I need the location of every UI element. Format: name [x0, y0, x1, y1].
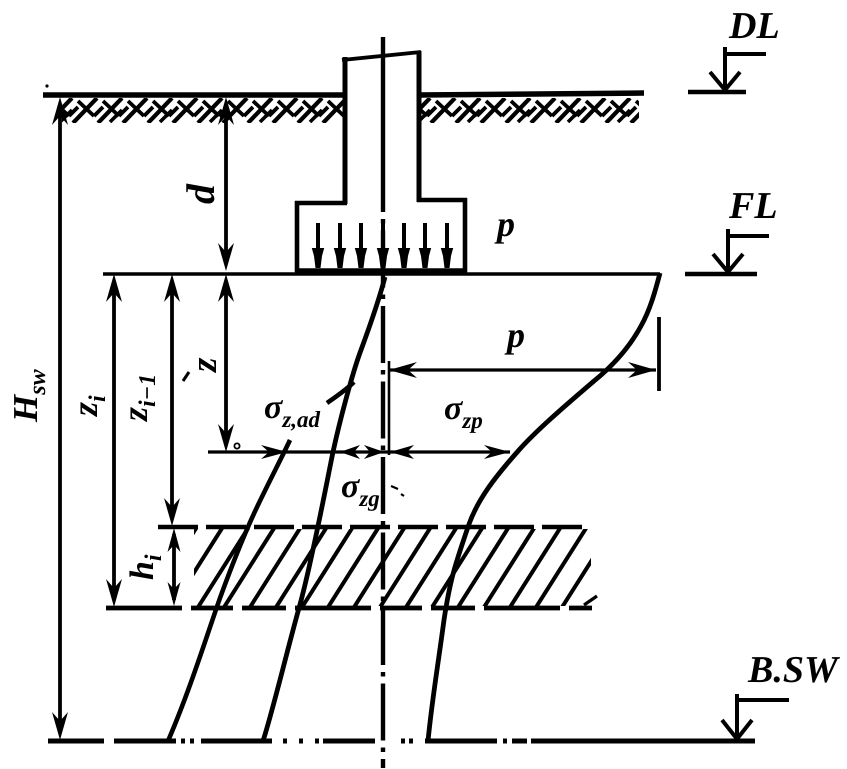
- centre axis dash-dot line: [381, 37, 385, 768]
- sigma_z,ad stress curve (left): [168, 440, 290, 741]
- foundation column: [342, 51, 421, 204]
- svg-text:p: p: [494, 204, 515, 244]
- soil layer hatching: [143, 522, 616, 612]
- sigma horizontal dimension line at depth z: [208, 445, 510, 459]
- svg-text:d: d: [178, 183, 223, 204]
- dimension z: [218, 274, 234, 452]
- svg-text:FL: FL: [728, 185, 778, 227]
- ground hatch band left of column: [48, 98, 378, 123]
- DL level marker: [688, 47, 766, 92]
- leader from sigma_z,ad label to curve: [327, 382, 354, 403]
- sigma_zp stress curve (right): [428, 273, 660, 741]
- small speck right of sigma_zg: [391, 486, 404, 496]
- FL level line (footing base plane): [103, 272, 660, 276]
- sigma_zg stress line (middle): [263, 277, 385, 741]
- compressible layer bottom dashed line: [106, 606, 592, 611]
- svg-text:p: p: [504, 315, 525, 355]
- dimension h_i: [168, 528, 181, 606]
- small tick at right end of layer bottom: [584, 596, 597, 605]
- base pressure arrows p under footing: [312, 223, 453, 268]
- svg-text:z: z: [184, 357, 225, 374]
- p dimension line at footing base pressure: [389, 317, 659, 455]
- tiny scan speck near z arrow: [234, 443, 239, 448]
- compressible layer top dashed line: [158, 525, 586, 529]
- dimension z_i-1: [164, 274, 180, 526]
- dimension H_sw: [52, 97, 68, 740]
- B.SW level marker: [722, 694, 789, 739]
- FL level marker: [685, 229, 769, 274]
- foundation footing step: [295, 198, 467, 272]
- dimension d: [218, 97, 234, 271]
- svg-text:DL: DL: [728, 5, 780, 47]
- ground surface line at DL level: [43, 84, 644, 95]
- svg-text:B.SW: B.SW: [747, 649, 841, 691]
- dimension z_i: [106, 274, 122, 607]
- bottom B.SW level line: [48, 739, 755, 744]
- footing base line: [295, 268, 467, 274]
- ground hatch band right of column: [406, 98, 661, 123]
- small apostrophe tick near z label: [183, 372, 189, 381]
